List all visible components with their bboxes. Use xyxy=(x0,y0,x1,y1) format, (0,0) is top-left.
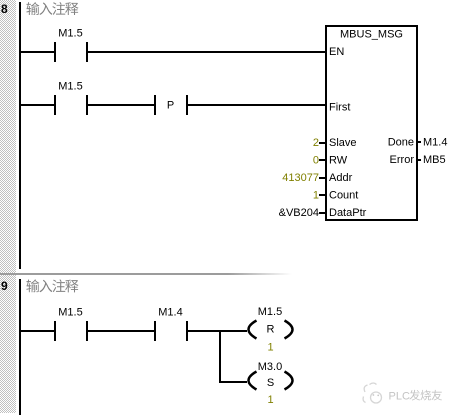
svg-text:1: 1 xyxy=(267,342,273,354)
svg-text:M1.5: M1.5 xyxy=(58,81,82,93)
svg-text:MB5: MB5 xyxy=(423,154,446,166)
svg-text:413077: 413077 xyxy=(282,172,319,184)
svg-text:0: 0 xyxy=(313,155,319,167)
svg-text:Addr: Addr xyxy=(329,172,353,184)
svg-text:Error: Error xyxy=(390,154,415,166)
svg-text:DataPtr: DataPtr xyxy=(329,207,367,219)
svg-text:M1.4: M1.4 xyxy=(158,307,182,319)
svg-text:9: 9 xyxy=(1,279,8,293)
svg-text:M3.0: M3.0 xyxy=(258,361,282,373)
svg-text:MBUS_MSG: MBUS_MSG xyxy=(340,29,403,41)
svg-text:Slave: Slave xyxy=(329,137,357,149)
svg-text:2: 2 xyxy=(313,137,319,149)
svg-text:S: S xyxy=(267,377,274,389)
svg-text:M1.5: M1.5 xyxy=(58,307,82,319)
svg-text:M1.4: M1.4 xyxy=(423,137,447,149)
svg-text:&VB204: &VB204 xyxy=(279,207,319,219)
svg-text:M1.5: M1.5 xyxy=(58,28,82,40)
svg-text:PLC: PLC xyxy=(389,391,410,403)
svg-text:EN: EN xyxy=(329,46,344,58)
svg-text:M1.5: M1.5 xyxy=(258,306,282,318)
svg-text:1: 1 xyxy=(313,190,319,202)
svg-text:Done: Done xyxy=(388,137,414,149)
svg-text:1: 1 xyxy=(267,394,273,406)
svg-text:Count: Count xyxy=(329,190,358,202)
svg-text:RW: RW xyxy=(329,155,348,167)
svg-text:P: P xyxy=(167,100,174,112)
svg-text:8: 8 xyxy=(1,2,8,16)
svg-text:R: R xyxy=(267,324,275,336)
svg-text:First: First xyxy=(329,102,350,114)
